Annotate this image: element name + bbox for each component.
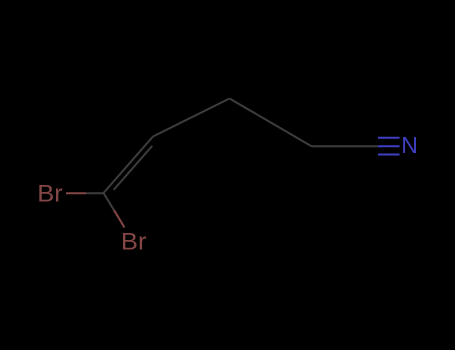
svg-text:Br: Br — [37, 181, 63, 208]
svg-text:Br: Br — [121, 228, 147, 255]
double bond C1=C2 second line — [114, 146, 153, 190]
svg-text:N: N — [401, 132, 418, 158]
triple bond C5#N middle line — [378, 145, 400, 147]
bond C1-Br2 (gray half near C1) — [104, 193, 115, 210]
double bond C1=C2 main line — [104, 137, 154, 194]
bond Br1-C1 (gray half near C1) — [86, 192, 104, 194]
triple bond C5#N bottom line — [378, 154, 400, 156]
bond C2-C3 — [153, 99, 230, 137]
bond C1-Br2 (red half near Br2) — [114, 210, 125, 227]
bond C3-C4 — [230, 99, 312, 147]
bond C4-C5 — [312, 145, 379, 147]
triple bond C5#N top line — [378, 137, 400, 139]
bond Br1-C1 (red half near Br1) — [66, 192, 86, 194]
